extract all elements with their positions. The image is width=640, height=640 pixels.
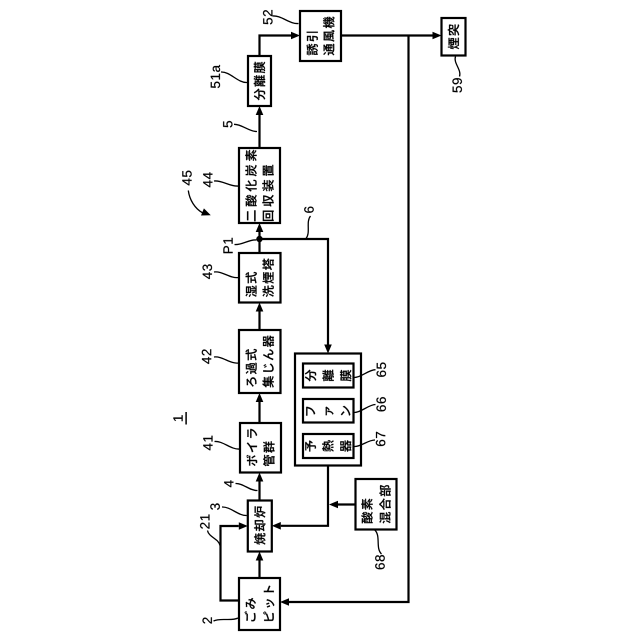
box 51a 分離膜	[248, 56, 271, 106]
box 65 分離膜	[303, 364, 354, 388]
wire 誘引通風機→煙突	[341, 34, 433, 36]
box 3 焼却炉	[248, 501, 272, 552]
node P1 junction dot	[256, 236, 262, 242]
wire ごみピット→焼却炉	[258, 561, 260, 579]
box 41 ボイラ管群	[240, 423, 281, 473]
label 41	[203, 436, 212, 451]
label 42	[202, 349, 211, 364]
label 4	[224, 480, 233, 487]
wire 焼却炉→ボイラ管群 (4)	[258, 482, 260, 501]
box group 65-67 outer	[295, 354, 361, 466]
label 6	[304, 207, 314, 213]
wire ごみピット→焼却炉 (21)	[221, 526, 240, 601]
label 5	[223, 121, 232, 127]
label 1 underlined	[173, 415, 182, 421]
box 67 予熱器	[303, 434, 354, 458]
label 59	[452, 78, 462, 92]
wire 酸素混合部→合流点	[338, 503, 356, 505]
wire P1→分離膜65 (6)	[260, 239, 329, 345]
label 2	[202, 617, 211, 623]
label 68	[375, 555, 385, 569]
wire 分離膜→誘引通風機	[260, 36, 292, 57]
box 68 酸素混合部	[356, 479, 397, 530]
label 3	[210, 503, 220, 509]
box 52 誘引通風機	[300, 11, 341, 61]
label 67	[376, 432, 386, 446]
label 45 with arrow	[182, 171, 191, 186]
label 52	[263, 10, 273, 24]
label 66	[376, 397, 386, 411]
box 2 ごみピット	[239, 578, 280, 630]
label 43	[203, 264, 213, 279]
wire 予熱器→焼却炉	[281, 466, 328, 526]
box 42 ろ過式集じん器	[239, 330, 281, 393]
box 59 煙突	[442, 18, 466, 56]
label 65	[377, 363, 387, 377]
wire 煙道→ごみピット戻り	[289, 36, 409, 603]
box 44 二酸化炭素回収装置	[239, 148, 280, 223]
wire 湿式洗煙塔→二酸化炭素回収装置 (P1)	[258, 232, 260, 253]
wire ろ過式集じん器→湿式洗煙塔	[258, 312, 260, 331]
wire ボイラ管群→ろ過式集じん器	[258, 402, 260, 423]
label P1	[223, 238, 232, 253]
box 43 湿式洗煙塔	[239, 253, 281, 303]
box 66 ファン	[303, 399, 354, 423]
label 44	[203, 172, 212, 187]
wire 回収装置→分離膜 (5)	[258, 115, 260, 148]
label 21	[200, 515, 209, 529]
label 51a	[211, 65, 220, 88]
